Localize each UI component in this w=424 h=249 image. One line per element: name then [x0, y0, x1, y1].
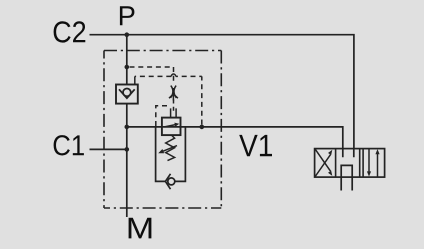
solenoid X with arrows: [315, 154, 330, 176]
throttle orifice arcs: [171, 86, 173, 98]
node: main line T junction: [125, 125, 130, 130]
port label P: [120, 6, 135, 25]
wire: C1 line: [90, 148, 127, 150]
right position: up arrow: [377, 153, 379, 177]
anti-cavitation check valve poppet: [168, 178, 175, 185]
right position: down arrow: [368, 149, 370, 173]
throttle arrowhead: [169, 94, 178, 98]
relief valve square: [162, 118, 181, 136]
check valve (pilot-operated) square: [116, 85, 138, 104]
pilot line A (check-valve pilot, dashed, with hop): [201, 76, 203, 124]
spring adjustment arrow: [163, 146, 177, 152]
check valve seat V: [119, 89, 135, 98]
valve tank stubs: [341, 177, 352, 190]
wire: bypass loop right: [175, 127, 186, 181]
node: P/C2 junction: [125, 32, 130, 37]
relief spring: [166, 135, 175, 161]
wire: P vertical drop to M: [126, 35, 128, 217]
wire: main line to valve (V1): [127, 127, 343, 149]
pilot line B vertical segment: [173, 67, 175, 84]
relief valve arrow: [165, 125, 176, 127]
pilot line B (to throttle and relief pilot, dashed): [130, 66, 174, 68]
port label V1: [239, 135, 272, 156]
pilot line B lower segment to relief pilot: [173, 100, 175, 113]
port label C2: [54, 21, 86, 42]
pilot sub-assembly dashed corner: [156, 106, 167, 127]
relief pilot connection stems: [171, 108, 177, 117]
middle position: U connecting bottom ports: [341, 165, 352, 177]
wire: C2 line across top and down to valve: [90, 35, 354, 149]
solenoid X second diagonal: [315, 149, 330, 171]
solenoid valve V1 body: [315, 149, 385, 178]
node: pilot sense junction on main line: [200, 125, 205, 130]
pilot drop into check valve: [134, 76, 136, 84]
manifold boundary (dash-dot box): [104, 50, 221, 52]
main line through relief square: [162, 126, 181, 128]
anti-cavitation check valve seat: [165, 174, 170, 189]
node: pilot takeoff on P line: [125, 65, 130, 70]
middle position: blocked top ports: [343, 149, 354, 158]
throttle arrow (up): [172, 88, 174, 101]
wire: bypass loop left: [156, 127, 166, 181]
section dividers (double line): [336, 149, 364, 178]
hop over vertical pilot line: [171, 74, 175, 76]
port label M: [129, 218, 152, 239]
check valve poppet circle: [123, 89, 131, 97]
port label C1: [54, 135, 84, 155]
node: C1 junction: [125, 147, 130, 152]
pilot line A left segment: [135, 75, 172, 77]
